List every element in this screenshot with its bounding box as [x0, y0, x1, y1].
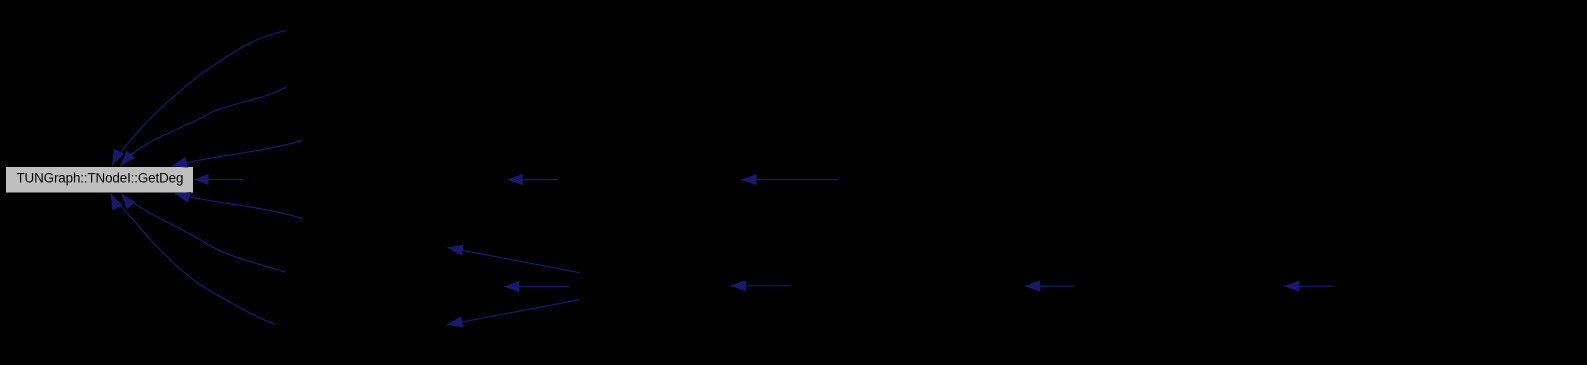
svg-text:TUNGraph::TNodeI::GetDeg: TUNGraph::TNodeI::GetDeg — [17, 170, 184, 185]
